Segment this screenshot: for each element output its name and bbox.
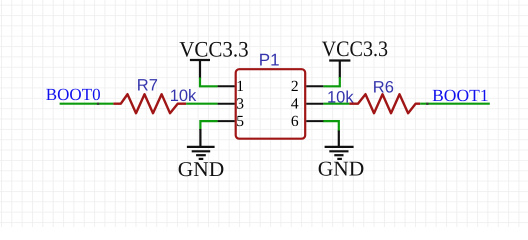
ground GND left <box>187 129 215 159</box>
svg-text:2: 2 <box>291 78 299 95</box>
wire BOOT0 <box>60 103 114 105</box>
pin 5 <box>218 120 235 122</box>
pin 6 <box>306 120 323 122</box>
connector P1 body <box>236 69 306 139</box>
svg-text:GND: GND <box>318 156 365 180</box>
svg-text:BOOT1: BOOT1 <box>432 86 489 105</box>
svg-text:P1: P1 <box>259 51 280 70</box>
svg-text:R6: R6 <box>373 78 394 96</box>
wire VCC3.3 to pin 1 <box>200 78 218 87</box>
svg-text:3: 3 <box>236 96 244 113</box>
svg-text:10k: 10k <box>170 87 197 105</box>
power symbol VCC3.3 left (bar) <box>190 60 210 79</box>
power symbol VCC3.3 right (bar) <box>329 61 350 79</box>
svg-text:R7: R7 <box>137 76 158 94</box>
wire R7 to pin 3 <box>186 103 217 105</box>
svg-text:BOOT0: BOOT0 <box>46 85 101 104</box>
wire pin 6 to GND right <box>323 121 339 131</box>
svg-text:1: 1 <box>236 78 244 95</box>
junction BOOT1 wire <box>426 103 428 105</box>
svg-text:GND: GND <box>178 157 225 181</box>
resistor R6 <box>349 94 420 113</box>
svg-text:VCC3.3: VCC3.3 <box>322 36 389 61</box>
wire R6 to BOOT1 <box>420 103 490 105</box>
pin 3 <box>218 103 235 105</box>
svg-text:6: 6 <box>291 113 299 130</box>
svg-text:4: 4 <box>291 96 299 113</box>
svg-text:5: 5 <box>236 113 244 130</box>
wire VCC3.3 to pin 2 <box>323 77 340 86</box>
pin 1 <box>218 85 235 87</box>
pin 4 <box>306 103 323 105</box>
ground GND right <box>325 131 354 159</box>
junction BOOT0 wire <box>97 103 99 105</box>
pin 2 <box>306 85 323 87</box>
svg-text:VCC3.3: VCC3.3 <box>179 36 249 61</box>
wire pin 5 to GND left <box>200 121 217 130</box>
wire pin 4 to R6 <box>323 103 349 105</box>
resistor R7 <box>113 94 186 113</box>
